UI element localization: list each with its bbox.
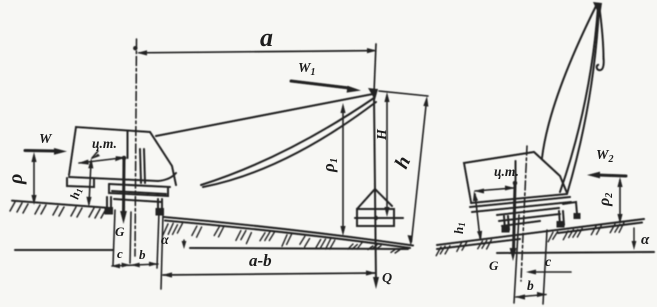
svg-text:H: H: [375, 128, 390, 141]
svg-text:b: b: [139, 247, 146, 262]
svg-text:c: c: [117, 246, 123, 261]
svg-text:G: G: [115, 224, 125, 239]
svg-text:ц.т.: ц.т.: [92, 136, 117, 151]
svg-text:Q: Q: [382, 271, 392, 286]
svg-text:α: α: [641, 232, 650, 248]
svg-text:α: α: [161, 233, 169, 248]
svg-text:ρ: ρ: [5, 174, 27, 185]
svg-text:c: c: [545, 255, 552, 270]
svg-text:ц.т.: ц.т.: [494, 164, 519, 179]
svg-text:b: b: [527, 278, 534, 293]
svg-text:a: a: [260, 23, 273, 52]
svg-text:a-b: a-b: [249, 251, 272, 270]
svg-text:W: W: [39, 132, 53, 147]
svg-text:G: G: [489, 258, 499, 273]
